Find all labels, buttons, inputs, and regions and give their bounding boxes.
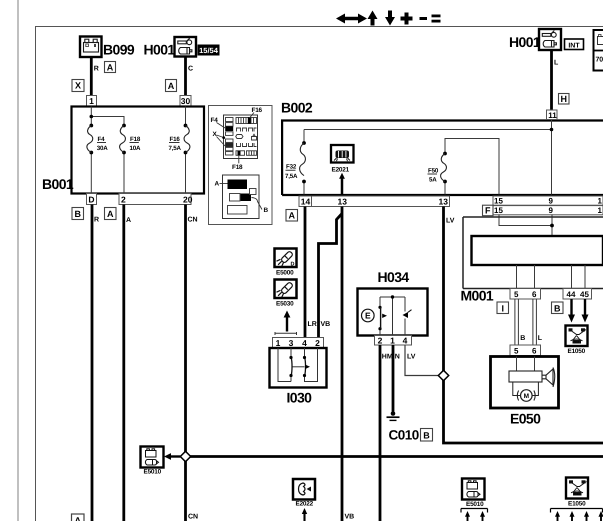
svg-text:5: 5 bbox=[514, 290, 519, 299]
fuse F50 5A bbox=[428, 152, 447, 184]
battery feed E5010 (left) bbox=[141, 447, 164, 476]
connector label A (ignition wire) bbox=[166, 80, 177, 92]
body computer M001 outer box bbox=[463, 217, 603, 289]
svg-text:E050: E050 bbox=[510, 411, 541, 427]
svg-text:I030: I030 bbox=[287, 390, 313, 406]
svg-text:30: 30 bbox=[181, 96, 191, 106]
svg-text:L: L bbox=[554, 60, 559, 67]
svg-text:A: A bbox=[107, 209, 114, 219]
svg-text:11: 11 bbox=[548, 111, 557, 120]
svg-text:X: X bbox=[75, 81, 81, 91]
orientation symbol up arrow bbox=[368, 11, 378, 26]
courtesy light switch I030 bbox=[270, 348, 327, 406]
svg-text:D: D bbox=[291, 262, 295, 268]
svg-text:3: 3 bbox=[289, 338, 294, 348]
wire N to ground bbox=[392, 345, 395, 412]
fuse F18 10A bbox=[120, 124, 141, 155]
pin strip 5-6 (E050 top) bbox=[510, 345, 541, 356]
svg-text:E5010: E5010 bbox=[144, 469, 162, 476]
svg-text:INT: INT bbox=[568, 42, 580, 49]
pin 1 of B001 bbox=[87, 96, 97, 107]
svg-text:E1050: E1050 bbox=[568, 348, 586, 355]
orientation symbol down arrow bbox=[385, 11, 395, 26]
wire pin1 internal bbox=[91, 107, 185, 194]
svg-text:C010: C010 bbox=[389, 428, 419, 443]
svg-text:E5010: E5010 bbox=[466, 501, 484, 508]
courtesy lamp E5000 bbox=[275, 249, 297, 277]
svg-text:F: F bbox=[485, 206, 491, 216]
svg-text:A: A bbox=[215, 181, 220, 188]
svg-text:A: A bbox=[75, 516, 82, 521]
page margin line bbox=[17, 0, 19, 521]
svg-text:H: H bbox=[561, 94, 568, 104]
svg-text:GM: GM bbox=[574, 340, 580, 344]
pin 30 of B001 bbox=[180, 96, 191, 107]
svg-text:2: 2 bbox=[315, 338, 320, 348]
svg-text:E2021: E2021 bbox=[332, 167, 350, 174]
svg-text:45: 45 bbox=[580, 290, 589, 299]
arrows up E5010 right bbox=[465, 511, 485, 521]
arrow up to E5030 bbox=[286, 317, 288, 332]
node dot M001 input bbox=[550, 224, 554, 228]
svg-text:2: 2 bbox=[121, 195, 126, 205]
svg-text:14: 14 bbox=[301, 197, 311, 207]
svg-text:N: N bbox=[395, 354, 400, 361]
svg-text:20: 20 bbox=[183, 195, 193, 205]
svg-text:M: M bbox=[524, 393, 529, 400]
fuse F32 7,5A bbox=[285, 141, 306, 183]
svg-text:M001: M001 bbox=[461, 288, 494, 304]
battery B099 bbox=[80, 37, 135, 58]
connector location drawing A/B bbox=[215, 175, 269, 219]
svg-text:B: B bbox=[423, 430, 430, 440]
label 15/54 bbox=[198, 45, 220, 56]
node dot pin11 bus bbox=[550, 128, 554, 132]
svg-text:L: L bbox=[538, 335, 543, 342]
svg-text:44: 44 bbox=[567, 290, 576, 299]
svg-text:F4: F4 bbox=[98, 136, 106, 143]
svg-text:A: A bbox=[107, 62, 114, 72]
svg-text:15: 15 bbox=[494, 197, 503, 206]
connector label F bbox=[483, 205, 494, 216]
fuse F16 highlighted bbox=[248, 117, 251, 124]
wire L (pin6 to horn) bbox=[533, 299, 537, 345]
svg-text:1: 1 bbox=[276, 338, 281, 348]
svg-text:E2022: E2022 bbox=[296, 501, 314, 508]
arrow wires 44-45 to E1050 bbox=[570, 299, 572, 315]
wire LV (pin13 right down) bbox=[444, 207, 603, 444]
arrow to E5010 bbox=[170, 455, 180, 457]
svg-text:E: E bbox=[365, 311, 371, 321]
svg-text:HM: HM bbox=[382, 354, 393, 361]
svg-text:6: 6 bbox=[532, 290, 537, 299]
bracket E1050 bottom bbox=[551, 509, 603, 513]
node junction dot bbox=[90, 115, 94, 119]
wire A down bbox=[122, 205, 125, 521]
wire CN horizontal bbox=[186, 455, 603, 458]
door switch H034 bbox=[358, 269, 428, 336]
svg-text:VB: VB bbox=[321, 321, 331, 328]
pin strip 14-13-13 of B002 bbox=[299, 196, 450, 207]
orientation symbol plus bbox=[401, 13, 413, 25]
svg-text:7,5A: 7,5A bbox=[169, 145, 182, 152]
svg-text:E1050: E1050 bbox=[568, 501, 586, 508]
connector label B bbox=[72, 208, 84, 220]
svg-text:1: 1 bbox=[390, 335, 395, 345]
fuse row shapes bbox=[236, 128, 257, 155]
wire 15 to 9 jog bbox=[499, 214, 552, 236]
pin D of B001 bbox=[87, 194, 97, 205]
svg-text:CN: CN bbox=[188, 514, 198, 521]
svg-text:LV: LV bbox=[446, 218, 455, 225]
svg-text:7,5A: 7,5A bbox=[285, 173, 298, 180]
wire fuse outputs internal bbox=[91, 107, 185, 194]
svg-text:H034: H034 bbox=[378, 269, 410, 285]
svg-text:9: 9 bbox=[549, 206, 554, 215]
pin strip of H034 bbox=[375, 335, 412, 345]
svg-text:F50: F50 bbox=[428, 168, 439, 175]
orientation symbol left-right arrow bbox=[336, 11, 441, 26]
fuse F18 highlighted bbox=[238, 151, 241, 156]
fuse F4 30A bbox=[87, 124, 108, 155]
svg-text:5A: 5A bbox=[429, 176, 437, 183]
buzzer E2022 bbox=[293, 479, 315, 508]
svg-text:A: A bbox=[289, 211, 296, 221]
connector label A bottom left (cut) bbox=[72, 514, 85, 521]
svg-text:1: 1 bbox=[89, 96, 94, 106]
svg-text:9: 9 bbox=[549, 197, 554, 206]
fusebox layout drawing bbox=[211, 107, 263, 171]
wire R down bbox=[91, 205, 94, 521]
pin strip 2-20 of B001 bbox=[119, 194, 193, 205]
pin strip 5-6 of M001 bbox=[510, 289, 541, 300]
battery feed E5010 (right) bbox=[462, 479, 485, 509]
svg-text:B: B bbox=[264, 207, 269, 214]
ignition switch H001 (left) bbox=[144, 37, 197, 58]
wire L from H001 to B002 pin 11 bbox=[550, 50, 553, 110]
svg-text:C: C bbox=[188, 66, 193, 73]
svg-text:E5000: E5000 bbox=[276, 270, 294, 277]
wire C from H001 to B001 pin 30 bbox=[184, 57, 187, 96]
connector row 1 below B002 bbox=[493, 196, 603, 206]
svg-text:13: 13 bbox=[439, 197, 449, 207]
svg-text:H001: H001 bbox=[509, 34, 541, 50]
svg-text:15/54: 15/54 bbox=[199, 46, 219, 55]
pin strip of I030 bbox=[273, 338, 324, 349]
pin 11 of B002 bbox=[547, 110, 558, 120]
wire arrow to E2021 bbox=[341, 179, 344, 197]
svg-text:R: R bbox=[94, 217, 99, 224]
connector label B bbox=[552, 302, 564, 314]
wire LV branch from H034 pin4 bbox=[405, 345, 439, 376]
wire VB (pin13 to I030 pin2 and down) bbox=[341, 207, 344, 521]
svg-text:R: R bbox=[94, 66, 99, 73]
junction diamond LV bbox=[438, 370, 448, 380]
svg-text:1: 1 bbox=[598, 197, 603, 206]
bracket above I030 bbox=[275, 332, 297, 335]
wire LR (pin14 to I030 pin4) bbox=[304, 207, 307, 338]
svg-text:4: 4 bbox=[302, 338, 307, 348]
arrows up E1050 bottom bbox=[555, 511, 603, 521]
svg-text:5: 5 bbox=[514, 346, 519, 355]
svg-text:4: 4 bbox=[403, 335, 408, 345]
svg-text:GM: GM bbox=[574, 492, 580, 496]
wire CN down bbox=[184, 205, 187, 521]
interior lamp switch E2021 bbox=[331, 145, 354, 174]
svg-text:B: B bbox=[520, 335, 525, 342]
inset detail panel bbox=[209, 106, 273, 225]
alarm siren E1050 (bottom) bbox=[566, 478, 588, 508]
M001 inner module bbox=[472, 236, 603, 265]
corner component box (cut off) bbox=[594, 30, 603, 71]
svg-text:F16: F16 bbox=[170, 136, 181, 143]
svg-text:15: 15 bbox=[494, 206, 503, 215]
svg-text:A: A bbox=[168, 81, 175, 91]
fuse F4 highlighted bbox=[225, 126, 233, 131]
wire internal bus B002 bbox=[304, 120, 552, 195]
connector label I bbox=[497, 302, 509, 314]
node X bbox=[72, 80, 84, 92]
svg-text:E5030: E5030 bbox=[276, 301, 294, 308]
junction box B001 bbox=[72, 107, 205, 194]
svg-text:70: 70 bbox=[596, 57, 603, 64]
wire R from B099 to B001 pin 1 bbox=[90, 57, 93, 96]
wire B (pin5 to horn) bbox=[515, 299, 519, 345]
svg-text:H001: H001 bbox=[144, 42, 176, 58]
connector label A below pin14 bbox=[286, 210, 298, 222]
alarm siren E1050 (upper) bbox=[566, 326, 588, 356]
orientation symbol equals bbox=[432, 15, 441, 18]
svg-text:CN: CN bbox=[188, 217, 198, 224]
svg-text:I: I bbox=[502, 303, 505, 313]
junction diamond CN bbox=[180, 451, 190, 461]
svg-text:B001: B001 bbox=[42, 176, 74, 192]
orientation symbol minus bbox=[420, 17, 428, 20]
connector row 2 (M001 top) bbox=[493, 206, 603, 215]
svg-text:VB: VB bbox=[345, 514, 355, 521]
horn E050 bbox=[491, 357, 559, 427]
connector label A bbox=[105, 208, 117, 220]
svg-text:LR: LR bbox=[308, 321, 317, 328]
svg-text:D: D bbox=[88, 195, 94, 205]
wire HM down bbox=[379, 345, 382, 521]
svg-text:B002: B002 bbox=[281, 100, 313, 116]
svg-text:13: 13 bbox=[338, 197, 348, 207]
wire M001 outputs bbox=[517, 265, 586, 289]
svg-text:10A: 10A bbox=[130, 145, 141, 152]
label INT bbox=[565, 39, 584, 50]
pin strip 44-45 of M001 bbox=[563, 289, 592, 300]
fuse F16 7,5A bbox=[169, 124, 190, 155]
svg-text:F18: F18 bbox=[130, 136, 141, 143]
svg-text:B: B bbox=[554, 303, 561, 313]
connector label A (battery wire) bbox=[105, 62, 116, 73]
svg-text:F32: F32 bbox=[286, 164, 297, 171]
node H bbox=[559, 94, 570, 105]
svg-text:1: 1 bbox=[598, 206, 603, 215]
arrow up to E2022 bbox=[303, 514, 305, 521]
bracket E5010 right bbox=[461, 509, 488, 513]
svg-text:30A: 30A bbox=[97, 145, 108, 152]
svg-text:6: 6 bbox=[532, 346, 537, 355]
connector label B (C010) bbox=[421, 429, 433, 442]
svg-text:B: B bbox=[75, 209, 82, 219]
ground C010 bbox=[387, 411, 419, 442]
svg-text:B099: B099 bbox=[103, 42, 135, 58]
svg-text:A: A bbox=[126, 217, 131, 224]
svg-text:F18: F18 bbox=[232, 164, 243, 171]
ignition switch H001 (right) bbox=[509, 29, 561, 50]
courtesy lamp E5030 bbox=[275, 280, 297, 308]
svg-text:2: 2 bbox=[378, 335, 383, 345]
svg-text:LV: LV bbox=[407, 354, 416, 361]
